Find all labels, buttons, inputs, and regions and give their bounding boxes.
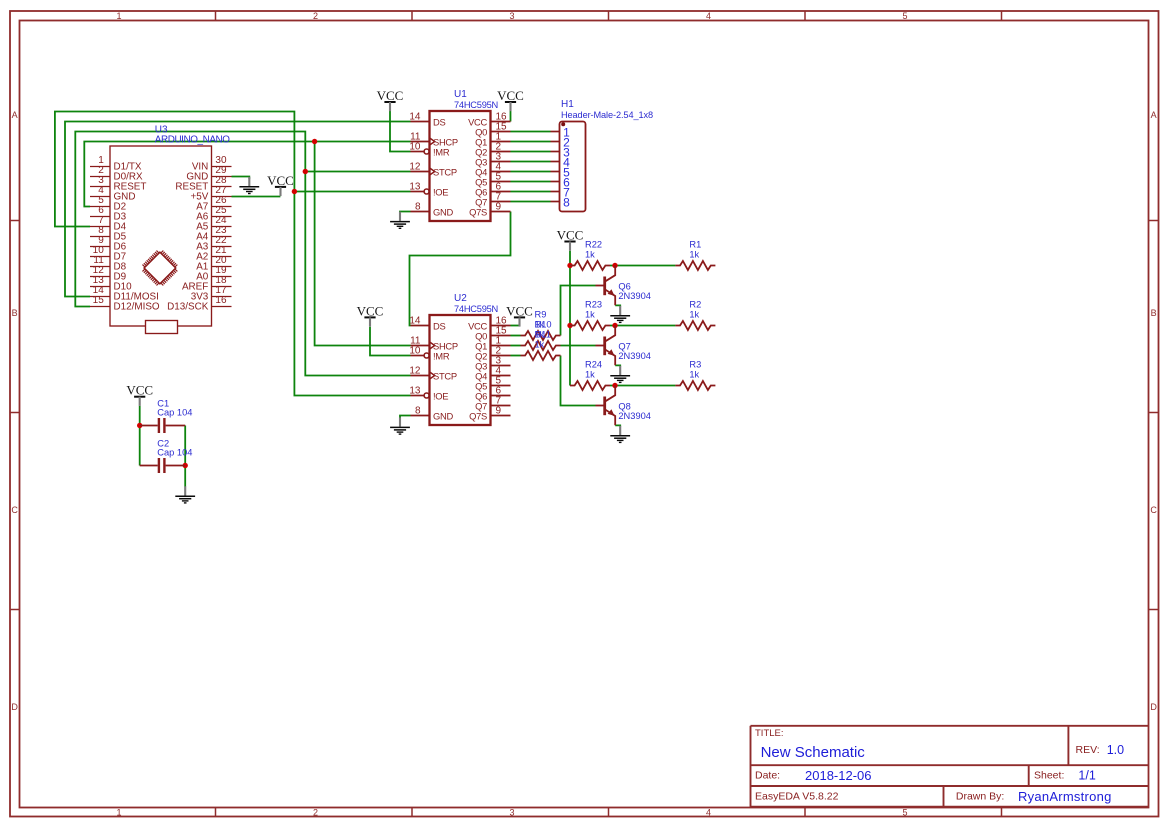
svg-text:Header-Male-2.54_1x8: Header-Male-2.54_1x8: [561, 110, 653, 120]
wire U1 Q4 to H1 pin 5: [511, 171, 551, 173]
svg-text:VCC: VCC: [357, 303, 384, 318]
svg-text:9: 9: [496, 406, 502, 417]
wire U2 Q1 to R10: [511, 345, 521, 347]
wire VCC to U1 VCC: [510, 111, 512, 122]
svg-text:H1: H1: [561, 99, 574, 110]
wire U2 Q0 to R9: [511, 335, 521, 337]
capacitor C2 Cap 104: [140, 465, 158, 467]
svg-text:R23: R23: [585, 300, 602, 310]
svg-text:12: 12: [409, 366, 421, 377]
svg-text:TITLE:: TITLE:: [755, 728, 784, 739]
junction: [567, 323, 572, 328]
junction: [312, 139, 317, 144]
resistor R2 1k: [675, 321, 715, 330]
svg-text:1k: 1k: [689, 250, 699, 260]
svg-text:RyanArmstrong: RyanArmstrong: [1018, 789, 1112, 804]
junction: [612, 383, 617, 388]
resistor R24 1k: [570, 381, 610, 390]
wire VCC to C1 C2 left: [139, 406, 141, 466]
junction: [567, 263, 572, 268]
svg-text:DS: DS: [433, 321, 445, 332]
svg-text:!OE: !OE: [433, 187, 448, 198]
svg-text:5: 5: [902, 11, 907, 21]
ground U1 pin8: [390, 212, 410, 229]
wire U1 GND to ground: [400, 211, 411, 214]
svg-text:R22: R22: [585, 240, 602, 250]
wire U2 GND to ground: [400, 416, 411, 419]
wire R9 to Q6 base: [561, 286, 596, 336]
svg-text:B: B: [1151, 308, 1157, 318]
svg-text:Date:: Date:: [755, 769, 780, 781]
svg-text:VCC: VCC: [506, 303, 533, 318]
wire U1 Q1 to H1 pin 2: [511, 141, 551, 143]
junction: [137, 423, 142, 428]
svg-text:R2: R2: [689, 300, 701, 310]
ground Q7 emitter: [610, 366, 630, 383]
svg-text:Q7S: Q7S: [469, 411, 487, 422]
svg-text:U2: U2: [454, 293, 467, 304]
svg-text:13: 13: [409, 386, 421, 397]
svg-text:14: 14: [409, 112, 421, 123]
wire R24 to Q8 collector and R3: [610, 385, 675, 387]
svg-text:Cap 104: Cap 104: [157, 448, 192, 458]
svg-text:8: 8: [415, 202, 421, 213]
ground C2: [175, 486, 195, 503]
svg-text:3: 3: [509, 807, 514, 817]
svg-text:2N3904: 2N3904: [618, 351, 651, 361]
transistor Q6 2N3904: [596, 285, 605, 287]
svg-text:1k: 1k: [535, 340, 545, 350]
svg-text:1k: 1k: [689, 370, 699, 380]
svg-text:1k: 1k: [585, 310, 595, 320]
wire VCC stub U2: [519, 317, 521, 326]
wire nano GND to ground: [232, 177, 250, 180]
svg-text:5: 5: [902, 807, 907, 817]
svg-text:3: 3: [509, 11, 514, 21]
svg-text:STCP: STCP: [433, 167, 457, 178]
svg-text:A: A: [1151, 110, 1157, 120]
wire VCC to U2 VCC: [511, 325, 520, 327]
svg-text:1.0: 1.0: [1107, 743, 1124, 757]
svg-text:VCC: VCC: [126, 383, 153, 398]
wire nano +5V to VCC: [232, 196, 281, 198]
VCC flag R22 rail: [557, 227, 584, 250]
svg-text:15: 15: [93, 295, 105, 306]
junction: [183, 463, 188, 468]
wire U1 Q7S to U2 DS: [410, 212, 511, 326]
svg-text:D12/MISO: D12/MISO: [114, 302, 160, 313]
svg-text:GND: GND: [433, 207, 453, 218]
svg-text:R1: R1: [689, 240, 701, 250]
svg-text:B: B: [12, 308, 18, 318]
svg-text:74HC595N: 74HC595N: [454, 304, 498, 314]
wire net D12-MISO to U2 STCP: [75, 132, 410, 376]
svg-text:U1: U1: [454, 89, 467, 100]
wire branch to U2 SHCP: [315, 142, 411, 346]
svg-text:D13/SCK: D13/SCK: [167, 302, 209, 313]
wire C1 right to C2 right to ground: [184, 426, 186, 487]
svg-text:!OE: !OE: [433, 391, 448, 402]
wire R11 to Q8 base: [561, 356, 596, 406]
svg-text:Q7S: Q7S: [469, 207, 487, 218]
svg-text:2: 2: [313, 807, 318, 817]
shift register U2 74HC595N: [409, 293, 510, 425]
wire R23 to Q7 collector and R2: [610, 325, 675, 327]
svg-text:9: 9: [496, 202, 502, 213]
junction: [612, 263, 617, 268]
svg-text:R11: R11: [535, 330, 551, 340]
transistor Q8 2N3904: [596, 405, 605, 407]
svg-text:C: C: [1150, 505, 1157, 515]
ground nano pin29: [239, 177, 259, 194]
wire R22 to Q6 collector and R1: [610, 265, 675, 267]
svg-text:ARDUINO_NANO: ARDUINO_NANO: [155, 134, 230, 145]
svg-text:A: A: [12, 110, 18, 120]
resistor R23 1k: [570, 321, 610, 330]
resistor R22 1k: [570, 261, 610, 270]
svg-text:14: 14: [409, 316, 421, 327]
svg-text:Cap 104: Cap 104: [157, 408, 192, 418]
title block: [751, 726, 1149, 808]
wire net D11-MOSI to U1 DS: [65, 122, 411, 297]
svg-text:VCC: VCC: [377, 88, 404, 103]
resistor R1 1k: [675, 261, 715, 270]
svg-text:REV:: REV:: [1076, 744, 1100, 756]
connector H1 Header-Male-2.54_1x8: [551, 99, 653, 212]
svg-text:New Schematic: New Schematic: [761, 744, 866, 761]
svg-text:13: 13: [409, 182, 421, 193]
ground Q6 emitter: [610, 306, 630, 323]
transistor Q7 2N3904: [596, 345, 605, 347]
ground U2 pin8: [390, 418, 410, 435]
svg-text:Drawn By:: Drawn By:: [956, 791, 1004, 803]
wire net D2 to U1 SHCP: [84, 142, 410, 207]
svg-text:10: 10: [409, 142, 421, 153]
VCC flag U2 pin16: [506, 303, 533, 326]
svg-text:1k: 1k: [689, 310, 699, 320]
wire branch to U1 !OE: [294, 191, 410, 193]
svg-text:EasyEDA V5.8.22: EasyEDA V5.8.22: [755, 791, 839, 803]
junction: [292, 189, 297, 194]
svg-text:10: 10: [409, 346, 421, 357]
svg-text:4: 4: [706, 807, 711, 817]
svg-text:GND: GND: [433, 411, 453, 422]
svg-text:DS: DS: [433, 117, 445, 128]
resistor R11 1k: [521, 351, 561, 360]
wire U1 Q6 to H1 pin 7: [511, 191, 551, 193]
svg-text:2N3904: 2N3904: [618, 291, 651, 301]
svg-text:STCP: STCP: [433, 371, 457, 382]
wire U1 Q3 to H1 pin 4: [511, 161, 551, 163]
VCC flag nano +5V: [267, 173, 294, 196]
VCC flag U1 !MR: [377, 88, 404, 111]
resistor R10 1k: [521, 341, 561, 350]
svg-text:12: 12: [409, 162, 421, 173]
wire net D4 to U2 !OE: [55, 112, 411, 396]
svg-text:8: 8: [563, 196, 570, 210]
shift register U1 74HC595N: [409, 89, 510, 221]
svg-text:!MR: !MR: [433, 351, 450, 362]
svg-text:1: 1: [116, 807, 121, 817]
wire VCC rail to R22 R23 R24: [569, 251, 571, 386]
svg-text:2018-12-06: 2018-12-06: [805, 768, 872, 783]
svg-text:VCC: VCC: [497, 88, 524, 103]
VCC flag U2 !MR: [357, 303, 384, 326]
svg-text:74HC595N: 74HC595N: [454, 100, 498, 110]
VCC flag C1 C2: [126, 383, 153, 406]
svg-text:VCC: VCC: [557, 227, 584, 242]
wire emitter to ground: [615, 425, 620, 426]
svg-text:4: 4: [706, 11, 711, 21]
VCC flag U1 pin16: [497, 88, 524, 111]
svg-text:16: 16: [215, 295, 227, 306]
wire U2 Q2 to R11: [511, 355, 521, 357]
wire U1 Q2 to H1 pin 3: [511, 151, 551, 153]
wire R10 to Q7 base: [561, 345, 596, 347]
svg-text:R3: R3: [689, 360, 701, 370]
svg-text:8: 8: [415, 406, 421, 417]
svg-text:R24: R24: [585, 360, 602, 370]
wire VCC to U2 !MR: [370, 327, 411, 356]
svg-text:1k: 1k: [585, 370, 595, 380]
svg-text:C: C: [11, 505, 18, 515]
svg-text:R9: R9: [535, 310, 547, 320]
wire U1 Q5 to H1 pin 6: [511, 181, 551, 183]
svg-text:2: 2: [313, 11, 318, 21]
svg-text:R10: R10: [535, 320, 552, 330]
wire branch to U1 STCP: [305, 171, 410, 173]
svg-text:D: D: [1150, 702, 1157, 712]
svg-text:1k: 1k: [585, 250, 595, 260]
wire emitter to ground: [615, 365, 620, 366]
svg-text:Sheet:: Sheet:: [1034, 769, 1064, 781]
wire emitter to ground: [615, 305, 620, 306]
svg-text:D: D: [11, 702, 18, 712]
svg-text:!MR: !MR: [433, 147, 450, 158]
svg-text:2N3904: 2N3904: [618, 411, 651, 421]
wire U1 Q0 to H1 pin 1: [511, 131, 551, 133]
junction: [303, 169, 308, 174]
resistor R3 1k: [675, 381, 715, 390]
junction: [612, 323, 617, 328]
resistor R9 1k: [521, 331, 561, 340]
capacitor C1 Cap 104: [140, 425, 158, 427]
svg-text:1/1: 1/1: [1078, 768, 1095, 782]
svg-text:VCC: VCC: [267, 173, 294, 188]
MCU U3 ARDUINO_NANO: [90, 124, 232, 333]
wire VCC to U1 !MR: [390, 111, 411, 152]
ground Q8 emitter: [610, 426, 630, 443]
wire U1 Q7 to H1 pin 8: [511, 201, 551, 203]
svg-text:1: 1: [116, 11, 121, 21]
